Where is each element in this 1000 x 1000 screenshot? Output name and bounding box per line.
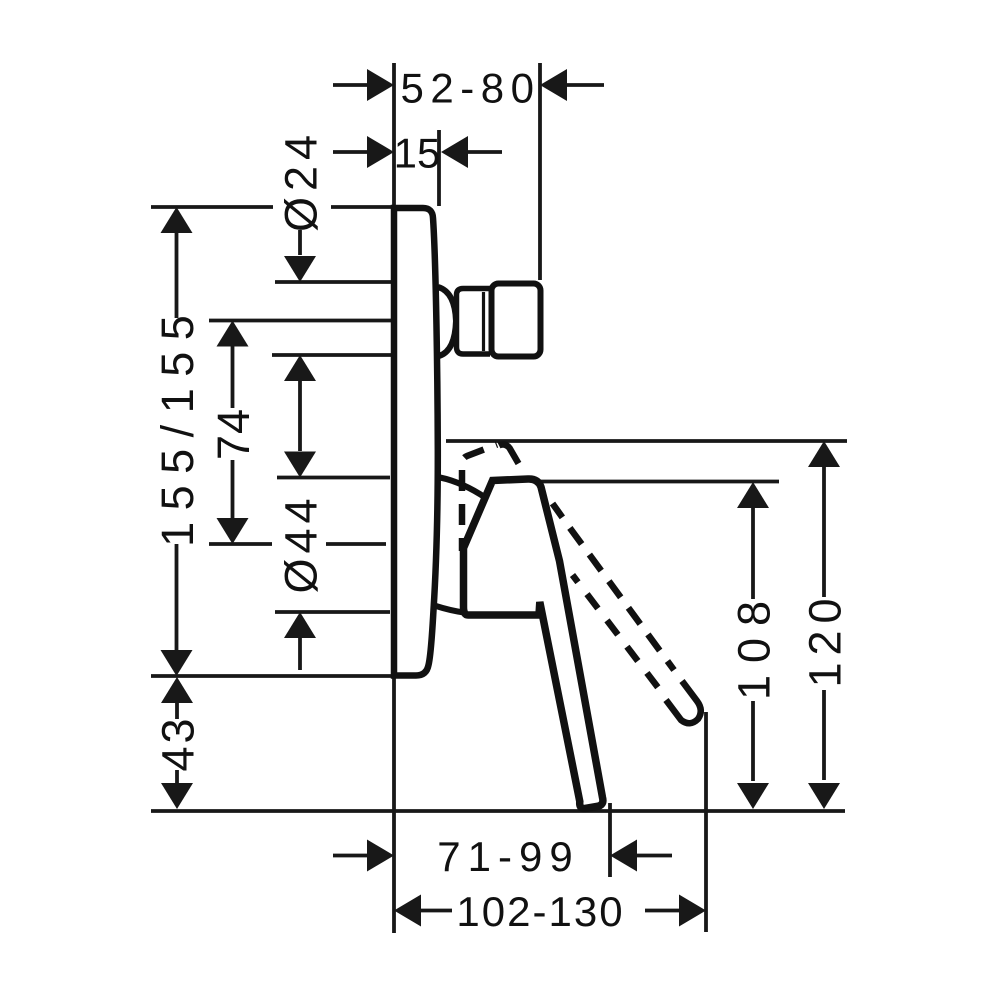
extension line plate bottom / 43 top: [151, 674, 392, 678]
svg-text:74: 74: [208, 408, 259, 460]
svg-text:15: 15: [394, 130, 441, 177]
dimension 15: [333, 136, 502, 168]
extension line handle centerline 74 bottom: [209, 542, 386, 546]
dimension 43: [161, 677, 193, 809]
wall line: [392, 63, 396, 933]
bottom datum line: [151, 809, 845, 813]
svg-text:43: 43: [152, 715, 203, 771]
extension line Ø44 top: [277, 476, 390, 480]
dimension 120: [808, 441, 840, 809]
knob head: [492, 284, 541, 357]
dimension 102-130: [394, 895, 706, 927]
extension line knob top (Ø24): [275, 280, 391, 284]
knob base bump: [438, 287, 456, 356]
dimension Ø24 vertical: [284, 230, 316, 451]
extension line plate top / 155 top: [151, 205, 391, 209]
dashed handle top corner dash: [499, 444, 519, 463]
escutcheon plate (side view): [394, 208, 438, 676]
svg-text:108: 108: [728, 589, 779, 700]
svg-text:Ø24: Ø24: [275, 129, 326, 232]
dashed handle grip end cap: [666, 681, 701, 723]
knob stem: [457, 289, 491, 355]
dimension 74: [217, 321, 249, 545]
extension line 71-99 right: [608, 803, 612, 877]
dimension Ø44: [284, 452, 316, 671]
extension line 52-80 right: [538, 63, 542, 280]
sleeve bottom edge: [436, 606, 464, 613]
svg-text:120: 120: [799, 591, 850, 687]
extension line 120 top: [446, 439, 847, 443]
extension line Ø44 bottom: [275, 610, 390, 614]
extension line 15 right: [437, 130, 441, 206]
valve hub and lever handle: [464, 479, 603, 809]
svg-text:102-130: 102-130: [456, 888, 624, 935]
extension line knob bottom (Ø24): [272, 353, 391, 357]
extension line knob centerline: [209, 319, 391, 323]
svg-text:52-80: 52-80: [401, 65, 541, 112]
svg-text:71-99: 71-99: [437, 833, 579, 880]
extension line 102-130 right: [704, 712, 708, 932]
dimension 108: [737, 482, 769, 809]
dashed handle upper edge: [553, 504, 675, 671]
extension line 108 top: [536, 480, 779, 484]
svg-text:155/155: 155/155: [152, 304, 203, 547]
dimension 52-80: [333, 69, 604, 101]
knob stem edge line: [482, 292, 485, 351]
svg-text:Ø44: Ø44: [275, 493, 326, 593]
dimension 71-99: [333, 840, 672, 872]
dashed handle lower edge: [573, 575, 659, 688]
sleeve top edge: [440, 478, 486, 499]
dimension 155/155: [161, 207, 193, 676]
dashed handle (raised position, rear outline): [462, 445, 497, 552]
